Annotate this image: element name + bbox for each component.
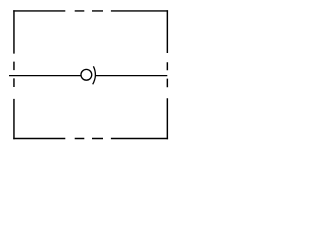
shield enclosure boundary (dashed box), top edge bbox=[13, 10, 168, 12]
wire, right lead from plug bbox=[96, 75, 168, 77]
shield enclosure boundary (dashed box), left edge bbox=[13, 10, 15, 139]
wire, left lead into jack bbox=[9, 75, 81, 77]
connector J1, plug spring contact (arc) bbox=[93, 66, 96, 84]
shield enclosure boundary (dashed box), bottom edge bbox=[13, 138, 168, 140]
shield enclosure boundary (dashed box), right edge bbox=[166, 10, 168, 139]
connector J1, jack body (circle) bbox=[81, 69, 92, 80]
